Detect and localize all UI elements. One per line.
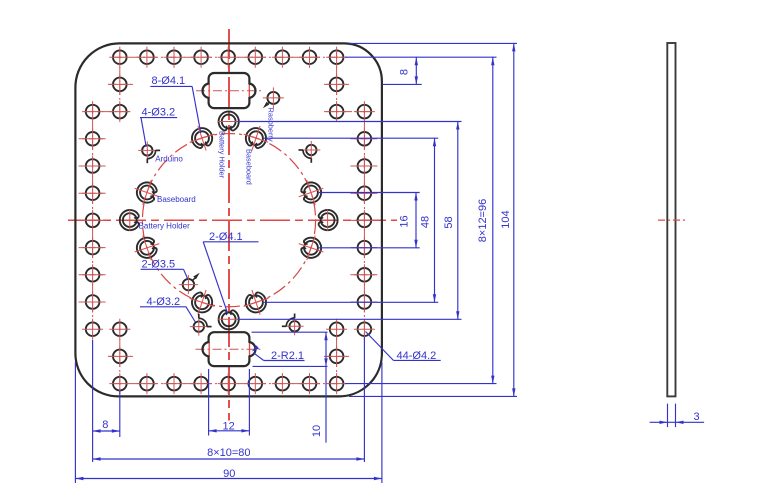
hole 4.2mm #22: [330, 105, 344, 119]
hole 4.2mm #4: [140, 377, 154, 391]
inner col left bottom centerline: [119, 321, 121, 392]
outer col left centerline: [92, 104, 94, 337]
hole 3.5mm: [183, 279, 194, 290]
row 8 left tick: [79, 274, 107, 276]
bolt circle hole 1: [195, 131, 209, 145]
row 3 left tick: [79, 138, 107, 140]
row B left tick: [108, 83, 133, 85]
ext line hole S right: [238, 318, 462, 320]
side dim ext right: [675, 404, 677, 428]
dim 12: [209, 430, 250, 432]
ext line bottom edge right: [349, 395, 517, 397]
svg-text:Battery Holder: Battery Holder: [218, 131, 227, 179]
dim 8x10=80: [93, 458, 365, 460]
svg-text:3: 3: [693, 411, 699, 423]
bolt circle hole 4: [304, 186, 318, 200]
ext line outer col right bottom: [363, 337, 365, 462]
svg-text:4-Ø3.2: 4-Ø3.2: [142, 106, 176, 118]
row A2 centerline: [112, 383, 344, 385]
row 3 right tick: [350, 138, 378, 140]
hole 4.2mm #26: [330, 350, 344, 364]
row 9 right tick: [350, 301, 378, 303]
dim 58: [457, 121, 459, 320]
hole 4.2mm #41: [86, 295, 100, 309]
hole 4.2mm #27: [86, 105, 100, 119]
hole 4.2mm #32: [358, 159, 372, 173]
battery holder hole 3: [222, 312, 236, 326]
row 7 left tick: [79, 247, 107, 249]
row B2 right tick: [324, 355, 349, 357]
svg-text:Battery Holder: Battery Holder: [139, 222, 190, 231]
svg-text:10: 10: [311, 425, 323, 437]
ext line flank top right: [264, 137, 438, 139]
hole 4.2mm #11: [249, 50, 263, 64]
hole 4.2mm #17: [330, 50, 344, 64]
battery holder hole 4: [123, 213, 137, 227]
svg-text:48: 48: [420, 216, 432, 228]
hole 4.2mm #34: [358, 186, 372, 200]
bolt circle hole 6: [304, 241, 318, 255]
centerline horizontal main: [68, 219, 397, 221]
hole 4.2mm #12: [249, 377, 263, 391]
hole 4.2mm #8: [194, 377, 208, 391]
ext line plate left bottom: [74, 362, 76, 483]
battery hole S cross tick: [218, 318, 240, 320]
hole 4.2mm #15: [303, 50, 317, 64]
hole 4.2mm #5: [167, 50, 181, 64]
hole 4.2mm #16: [303, 377, 317, 391]
battery hole N cross tick: [218, 121, 240, 123]
bolt circle hole 3: [140, 186, 154, 200]
hole raspberry: [267, 92, 279, 104]
hole 4.2mm #2: [113, 377, 127, 391]
bolt circle centerline: [142, 134, 315, 307]
bolt circle hole 5: [140, 241, 154, 255]
svg-text:8×12=96: 8×12=96: [477, 199, 489, 242]
hole 4.2mm #37: [86, 241, 100, 255]
hole 4.2mm #31: [86, 159, 100, 173]
hole 4.2mm #7: [194, 50, 208, 64]
svg-text:90: 90: [223, 468, 235, 480]
svg-text:Baseboard: Baseboard: [245, 149, 254, 185]
ext line hole N right: [238, 121, 462, 123]
svg-text:Baseboard: Baseboard: [157, 195, 196, 204]
hole 4.2mm #10: [221, 377, 235, 391]
hole 4.2mm #40: [358, 268, 372, 282]
hole 4.2mm #14: [276, 377, 290, 391]
inner col left top centerline: [119, 49, 121, 120]
svg-text:2-Ø4.1: 2-Ø4.1: [209, 231, 243, 243]
row C left centerline: [84, 111, 133, 113]
ext line slot top right: [252, 331, 328, 333]
row 4 left tick: [79, 165, 107, 167]
bottom slot centerline: [196, 348, 264, 350]
hole 4.2mm #33: [86, 186, 100, 200]
hole 4.2mm #44: [358, 322, 372, 336]
dim 8x12=96: [492, 57, 494, 384]
ext line row A right: [345, 56, 497, 58]
svg-text:Arduino: Arduino: [155, 155, 183, 164]
row 6 left tick: [79, 219, 107, 221]
svg-text:16: 16: [399, 215, 411, 227]
dim 16: [415, 192, 417, 248]
ext line circle side top right: [319, 192, 420, 194]
ext line row A2 right: [345, 383, 497, 385]
battery hole E cross tick: [327, 209, 329, 231]
hole 4.2mm #3: [140, 50, 154, 64]
dim 10: [325, 332, 327, 442]
battery hole W cross tick: [129, 209, 131, 231]
row A centerline: [112, 56, 344, 58]
side view centerline: [658, 219, 685, 221]
row B right tick: [324, 83, 349, 85]
bolt circle hole 7: [195, 295, 209, 309]
svg-text:8: 8: [399, 69, 411, 75]
dim 3: [650, 421, 705, 423]
ext line row B right: [382, 83, 421, 85]
hole 4.2mm #1: [113, 50, 127, 64]
ext line slot right bottom: [248, 369, 250, 436]
inner col right bottom centerline: [336, 321, 338, 392]
ext line flank bottom right: [264, 301, 438, 303]
svg-text:2-Ø3.5: 2-Ø3.5: [142, 258, 176, 270]
hole raspberry arrow: [266, 102, 269, 105]
outer col right centerline: [363, 104, 365, 337]
hole 3.2mm top-left (Arduino): [142, 145, 152, 155]
ext line slot left bottom: [208, 369, 210, 436]
svg-text:4-Ø3.2: 4-Ø3.2: [147, 296, 181, 308]
top slot left bump tick: [208, 84, 210, 98]
row 6 right tick: [350, 219, 378, 221]
hole 4.2mm #30: [358, 132, 372, 146]
top slot: [203, 73, 256, 108]
hole 4.2mm #42: [358, 295, 372, 309]
svg-text:104: 104: [500, 210, 512, 228]
ext line circle side bottom right: [319, 247, 420, 249]
hole 4.2mm #43: [86, 322, 100, 336]
hole 4.2mm #24: [330, 322, 344, 336]
top slot right bump tick: [248, 84, 250, 98]
row 7 right tick: [350, 247, 378, 249]
hole 4.2mm #21: [113, 105, 127, 119]
bottom slot right bump tick: [249, 343, 251, 357]
hole 4.2mm #9: [221, 50, 235, 64]
ext line outer col left bottom: [92, 340, 94, 462]
hole 4.2mm #19: [113, 78, 127, 92]
inner col right top centerline: [336, 49, 338, 120]
hole 3.2mm bottom-left: [194, 321, 204, 331]
bottom slot left bump tick: [208, 343, 210, 357]
dim 8 bottom: [93, 430, 120, 432]
hole 4.2mm #38: [358, 241, 372, 255]
hole 4.2mm #35: [86, 214, 100, 228]
bolt circle hole 8: [249, 295, 263, 309]
hole 4.2mm #18: [330, 377, 344, 391]
svg-text:8-Ø4.1: 8-Ø4.1: [152, 75, 186, 87]
ext line slot bottom right: [253, 365, 328, 367]
battery holder hole 2: [321, 213, 335, 227]
bolt circle hole 2: [249, 131, 263, 145]
row 4 right tick: [350, 165, 378, 167]
hole 4.2mm #36: [358, 214, 372, 228]
hole 4.2mm #28: [358, 105, 372, 119]
hole 4.2mm #23: [113, 322, 127, 336]
centerline vertical main: [228, 29, 230, 421]
dim 90: [75, 478, 382, 480]
plate outline: [75, 43, 382, 396]
hole 3.2mm top-right: [306, 145, 316, 155]
hole 4.2mm #29: [86, 132, 100, 146]
hole 4.2mm #13: [276, 50, 290, 64]
hole 4.2mm #20: [330, 78, 344, 92]
hole 4.2mm #39: [86, 268, 100, 282]
dim 104: [513, 43, 515, 397]
ext line col0 bottom: [119, 391, 121, 437]
svg-text:58: 58: [443, 216, 455, 228]
dim 8 right: [415, 57, 417, 85]
svg-text:Raspberry: Raspberry: [266, 108, 275, 142]
svg-text:8: 8: [102, 419, 108, 431]
hole 3.5mm arrow: [192, 277, 196, 281]
svg-text:12: 12: [222, 420, 234, 432]
hole 4.2mm #6: [167, 377, 181, 391]
side dim ext left: [667, 404, 669, 428]
row 5 right tick: [350, 192, 378, 194]
hole 3.2mm bottom-right: [289, 321, 299, 331]
top slot centerline: [196, 90, 263, 92]
battery holder hole 1: [222, 115, 236, 129]
ext line top edge right: [349, 42, 517, 44]
row 5 left tick: [79, 192, 107, 194]
side view outline: [667, 43, 675, 396]
row B2 left tick: [108, 355, 133, 357]
row C right centerline: [324, 111, 373, 113]
row 9 left tick: [79, 301, 107, 303]
bottom slot: [203, 332, 256, 366]
hole 4.2mm #25: [113, 350, 127, 364]
svg-text:8×10=80: 8×10=80: [207, 447, 250, 459]
ext line plate right bottom: [381, 362, 383, 483]
row 8 right tick: [350, 274, 378, 276]
dim 48: [434, 138, 436, 303]
